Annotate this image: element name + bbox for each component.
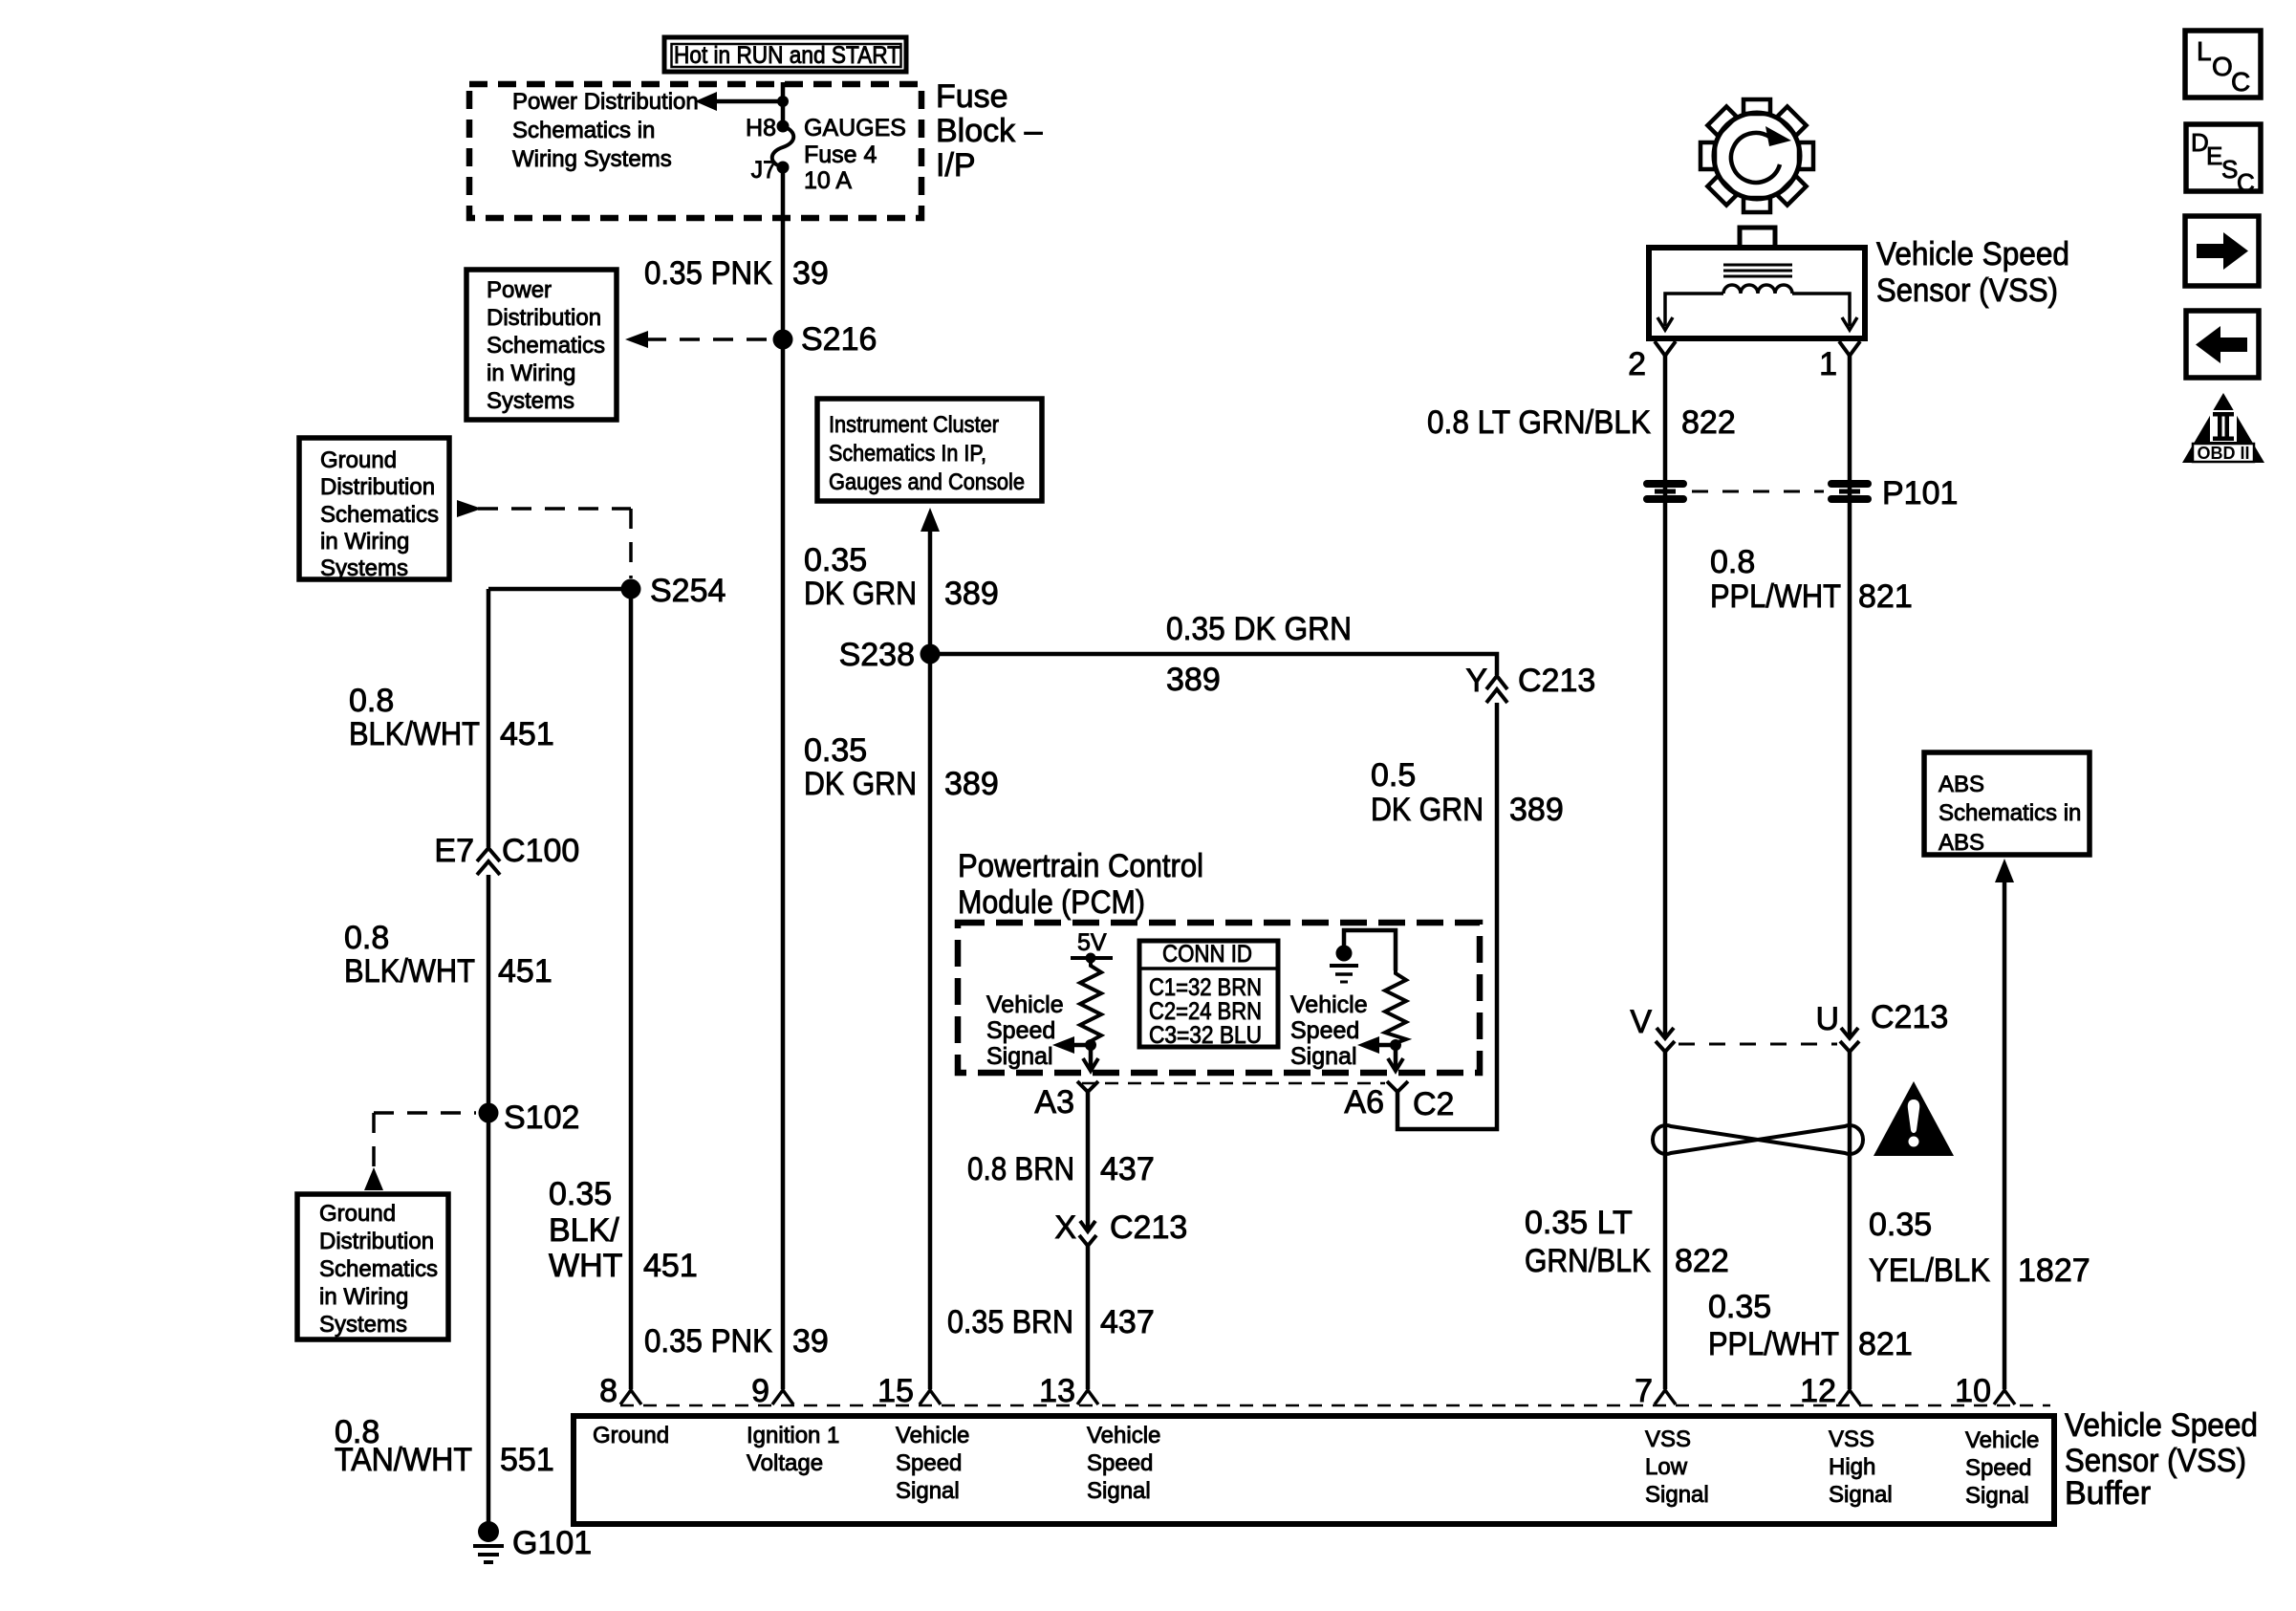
svg-text:Speed: Speed bbox=[986, 1017, 1055, 1044]
arrowhead pointing up above Ground box (lower) bbox=[364, 1167, 383, 1190]
svg-text:0.8 LT GRN/BLK: 0.8 LT GRN/BLK bbox=[1427, 404, 1651, 441]
svg-text:YEL/BLK: YEL/BLK bbox=[1869, 1252, 1990, 1289]
sidebar icon: left arrow button bbox=[2186, 311, 2259, 378]
svg-text:Hot in RUN and START: Hot in RUN and START bbox=[674, 42, 900, 69]
svg-text:Systems: Systems bbox=[320, 555, 408, 581]
svg-text:0.35: 0.35 bbox=[804, 542, 867, 578]
svg-text:Schematics: Schematics bbox=[487, 333, 605, 359]
svg-text:Signal: Signal bbox=[896, 1478, 960, 1504]
wire: right signal arrow line bbox=[1377, 1043, 1396, 1048]
wire: 0.35 BLK/WHT 451 from S254 down to buffer pin 8 bbox=[629, 589, 634, 1389]
warning symbol: filled triangle with exclamation bbox=[1874, 1081, 1954, 1156]
twisted pair symbol between wires 822 and 821 bbox=[1653, 1125, 1863, 1154]
VSS internal: core lines bbox=[1723, 264, 1792, 267]
buffer pin 12 chevron bbox=[1839, 1390, 1860, 1404]
wire: 0.35 DK GRN 389 horizontal from S238 to C213 Y bbox=[930, 654, 1497, 675]
svg-text:9: 9 bbox=[751, 1373, 769, 1409]
svg-text:V: V bbox=[1630, 1004, 1652, 1040]
svg-text:A3: A3 bbox=[1034, 1084, 1074, 1121]
svg-text:VSS: VSS bbox=[1829, 1426, 1874, 1452]
wire: 0.35 BRN 437 from C213 X down to buffer pin 13 bbox=[1086, 1246, 1091, 1389]
label box: Hot in RUN and START (outer) bbox=[664, 37, 906, 72]
svg-text:I/P: I/P bbox=[936, 147, 976, 184]
svg-text:821: 821 bbox=[1858, 578, 1913, 615]
svg-text:Signal: Signal bbox=[986, 1043, 1053, 1070]
svg-text:Distribution: Distribution bbox=[319, 1229, 434, 1254]
svg-text:39: 39 bbox=[792, 1323, 829, 1360]
svg-text:Y: Y bbox=[1465, 663, 1487, 699]
svg-text:Signal: Signal bbox=[1290, 1043, 1357, 1070]
CONN ID header separator bbox=[1139, 967, 1278, 970]
svg-text:Signal: Signal bbox=[1087, 1478, 1151, 1504]
svg-text:C: C bbox=[2237, 168, 2255, 197]
svg-text:S216: S216 bbox=[801, 321, 877, 358]
dashed line between P101 grommets bbox=[1692, 490, 1824, 493]
connector C213 terminal V (arrow + chevron) bbox=[1657, 1028, 1674, 1038]
svg-text:WHT: WHT bbox=[549, 1248, 622, 1284]
svg-text:Schematics in: Schematics in bbox=[512, 118, 655, 143]
ground G101 symbol bbox=[478, 1521, 499, 1542]
svg-text:BLK/WHT: BLK/WHT bbox=[349, 716, 480, 752]
svg-text:822: 822 bbox=[1681, 404, 1736, 441]
svg-text:DK GRN: DK GRN bbox=[804, 766, 917, 802]
svg-text:Speed: Speed bbox=[1290, 1017, 1359, 1044]
svg-text:in Wiring: in Wiring bbox=[487, 360, 575, 386]
resistor R pulldown (right) bbox=[1385, 970, 1406, 1043]
dashed reference line from S216 to Power Distribution box bbox=[646, 337, 768, 341]
splice S238 bbox=[921, 644, 941, 664]
arrowhead pointing left (vehicle speed signal left) bbox=[1052, 1036, 1074, 1054]
svg-text:A6: A6 bbox=[1344, 1084, 1384, 1121]
svg-text:Instrument Cluster: Instrument Cluster bbox=[829, 412, 999, 438]
dashed reference line from S102 to Ground box (lower) bbox=[374, 1111, 476, 1115]
node: junction at right vehicle speed signal bbox=[1390, 1039, 1401, 1051]
splice S216 bbox=[773, 330, 793, 350]
VSS internal: right lead with down arrow bbox=[1792, 294, 1850, 326]
splice S102 bbox=[479, 1103, 499, 1123]
svg-text:Low: Low bbox=[1645, 1454, 1688, 1480]
svg-text:0.5: 0.5 bbox=[1371, 757, 1416, 794]
connector C100 terminal E7 (double chevron) bbox=[477, 848, 500, 875]
svg-text:Fuse 4: Fuse 4 bbox=[804, 142, 877, 168]
PCM pin A6 chevron bbox=[1387, 1081, 1408, 1092]
svg-text:551: 551 bbox=[500, 1442, 554, 1478]
terminal J7 dot bbox=[777, 162, 790, 174]
reference box: Instrument Cluster Schematics in IP Gauges and Console bbox=[817, 399, 1042, 501]
svg-text:Systems: Systems bbox=[319, 1312, 407, 1338]
svg-text:C213: C213 bbox=[1110, 1209, 1187, 1246]
svg-text:0.8: 0.8 bbox=[344, 920, 389, 956]
svg-text:2: 2 bbox=[1628, 346, 1646, 382]
wire: 0.35 DK GRN 389 vertical to instrument cluster, with up arrow bbox=[928, 528, 933, 1389]
svg-text:389: 389 bbox=[944, 766, 999, 802]
svg-text:0.8: 0.8 bbox=[349, 683, 394, 719]
wire: ignition feed into fuse block, PNK circuit, x=819 top segment bbox=[781, 82, 786, 126]
dashed reference line down toward Ground box (lower) bbox=[372, 1113, 376, 1168]
svg-text:0.35: 0.35 bbox=[1708, 1289, 1771, 1325]
svg-text:BLK/WHT: BLK/WHT bbox=[344, 953, 475, 990]
wire: 0.35 PPL/WHT 821 from C213 U down to buffer pin 12 bbox=[1848, 1051, 1852, 1389]
svg-text:E: E bbox=[2206, 142, 2222, 170]
svg-text:13: 13 bbox=[1039, 1373, 1075, 1409]
connector C213 terminal Y (double chevron up) bbox=[1486, 676, 1507, 703]
svg-text:Block –: Block – bbox=[936, 113, 1043, 149]
svg-text:Schematics: Schematics bbox=[319, 1256, 438, 1282]
dashed connector line across buffer pins bbox=[620, 1404, 2050, 1407]
connector C213 terminal X (arrow + chevron) bbox=[1080, 1221, 1095, 1231]
connector P101 grommet (right) bbox=[1828, 480, 1872, 503]
svg-text:C100: C100 bbox=[502, 833, 579, 869]
svg-text:Vehicle: Vehicle bbox=[1965, 1427, 2039, 1453]
dashed reference line from Ground box (upper) to S254 horizontal bbox=[478, 507, 631, 511]
svg-text:Vehicle: Vehicle bbox=[1290, 991, 1368, 1018]
svg-text:451: 451 bbox=[643, 1248, 698, 1284]
svg-text:VSS: VSS bbox=[1645, 1426, 1691, 1452]
svg-text:0.35 BRN: 0.35 BRN bbox=[947, 1304, 1073, 1340]
wire: 0.35 PNK 39 from fuse J7 down to buffer pin 9 bbox=[781, 167, 786, 1389]
svg-text:0.35 PNK: 0.35 PNK bbox=[644, 1323, 772, 1360]
reference box: Ground Distribution Schematics in Wiring Systems (upper) bbox=[299, 438, 449, 579]
VSS mounting tab bbox=[1740, 228, 1775, 248]
svg-text:Speed: Speed bbox=[896, 1450, 962, 1476]
dashed reference line down to S254 bbox=[629, 509, 633, 578]
connector chevron under VSS pin 2 bbox=[1655, 341, 1676, 356]
svg-text:DK GRN: DK GRN bbox=[804, 576, 917, 612]
svg-text:E7: E7 bbox=[434, 833, 474, 869]
terminal H8 dot bbox=[777, 120, 790, 133]
svg-text:Schematics in: Schematics in bbox=[1939, 800, 2081, 826]
svg-text:8: 8 bbox=[599, 1373, 617, 1409]
svg-text:821: 821 bbox=[1858, 1326, 1913, 1362]
wire: 0.8 BLK/WHT 451 from C100 down to S102 bbox=[487, 875, 491, 1113]
svg-text:389: 389 bbox=[1509, 792, 1564, 828]
svg-text:Schematics: Schematics bbox=[320, 502, 439, 528]
svg-text:TAN/WHT: TAN/WHT bbox=[335, 1442, 472, 1478]
arrowhead pointing left at S216 reference bbox=[625, 331, 648, 348]
svg-text:Wiring Systems: Wiring Systems bbox=[512, 146, 672, 172]
svg-text:C213: C213 bbox=[1518, 663, 1595, 699]
buffer pin 9 chevron bbox=[772, 1390, 793, 1404]
svg-text:OBD II: OBD II bbox=[2197, 444, 2249, 463]
connector P101 grommet (left) bbox=[1643, 480, 1687, 503]
svg-text:0.35 PNK: 0.35 PNK bbox=[644, 255, 772, 292]
wire: 0.8 BRN 437 from PCM A3 down to C213 X bbox=[1086, 1092, 1091, 1231]
arrowhead pointing up to Instrument Cluster box bbox=[921, 508, 940, 532]
buffer pin 13 chevron bbox=[1077, 1390, 1098, 1404]
svg-text:ABS: ABS bbox=[1939, 772, 1984, 797]
wire: 0.8 TAN/WHT 551 from S102 down to G101 bbox=[487, 1113, 491, 1526]
PCM internal ground symbol bbox=[1336, 946, 1353, 962]
buffer pin 10 chevron bbox=[1994, 1390, 2015, 1404]
dashed connector line across PCM pins bbox=[1082, 1082, 1385, 1085]
svg-text:BLK/: BLK/ bbox=[549, 1212, 619, 1249]
buffer pin 7 chevron bbox=[1655, 1390, 1676, 1404]
svg-text:C213: C213 bbox=[1871, 999, 1948, 1035]
svg-text:C: C bbox=[2231, 67, 2250, 97]
wire: 0.8 LT GRN/BLK 822 from VSS pin 2 down to C213 V bbox=[1663, 356, 1668, 1038]
wire: 0.8 BLK/WHT 451 from S254 down to C100 bbox=[487, 589, 491, 847]
svg-text:0.35: 0.35 bbox=[549, 1176, 612, 1212]
component box: Vehicle Speed Sensor VSS bbox=[1649, 248, 1865, 338]
svg-text:Ground: Ground bbox=[319, 1201, 396, 1227]
fuse block dashed box: Fuse Block - I/P bbox=[469, 84, 921, 218]
svg-text:S: S bbox=[2221, 155, 2238, 184]
svg-text:Distribution: Distribution bbox=[320, 474, 435, 500]
svg-text:12: 12 bbox=[1800, 1373, 1836, 1409]
wire: 0.5 DK GRN 389 from C213 Y down and left to PCM C2 bbox=[1397, 703, 1497, 1129]
splice S254 bbox=[621, 579, 641, 599]
svg-text:Fuse: Fuse bbox=[936, 78, 1008, 115]
svg-text:389: 389 bbox=[944, 576, 999, 612]
svg-text:15: 15 bbox=[877, 1373, 914, 1409]
svg-text:5V: 5V bbox=[1077, 929, 1107, 956]
svg-text:Power: Power bbox=[487, 277, 552, 303]
connector chevron under VSS pin 1 bbox=[1839, 341, 1860, 356]
arrowhead pointing left (power distribution) bbox=[695, 92, 717, 111]
svg-text:Power Distribution: Power Distribution bbox=[512, 89, 699, 115]
svg-text:Vehicle: Vehicle bbox=[896, 1423, 969, 1448]
svg-text:0.35 DK GRN: 0.35 DK GRN bbox=[1166, 611, 1352, 647]
svg-text:C2: C2 bbox=[1413, 1086, 1454, 1122]
buffer pin 8 chevron bbox=[620, 1390, 641, 1404]
svg-text:10 A: 10 A bbox=[804, 167, 852, 194]
node: junction at left vehicle speed signal bbox=[1085, 1039, 1096, 1051]
svg-text:in Wiring: in Wiring bbox=[319, 1284, 408, 1310]
svg-text:in Wiring: in Wiring bbox=[320, 529, 409, 555]
svg-text:L: L bbox=[2197, 36, 2212, 66]
svg-text:39: 39 bbox=[792, 255, 829, 292]
fuse F4 GAUGES 10A element (S-curve) bbox=[772, 126, 794, 167]
svg-text:U: U bbox=[1815, 1001, 1839, 1037]
svg-text:0.35: 0.35 bbox=[804, 732, 867, 769]
svg-text:1: 1 bbox=[1819, 346, 1837, 382]
svg-text:451: 451 bbox=[500, 716, 554, 752]
svg-text:Module (PCM): Module (PCM) bbox=[958, 884, 1145, 921]
wire: 0.35 YEL/BLK 1827 from buffer pin 10 up to ABS reference bbox=[2003, 880, 2007, 1389]
wire: 0.35 LT GRN/BLK 822 from C213 V down to buffer pin 7 bbox=[1663, 1051, 1668, 1389]
arrowhead pointing left (vehicle speed signal right) bbox=[1357, 1036, 1379, 1054]
svg-text:Signal: Signal bbox=[1829, 1482, 1893, 1508]
svg-text:Vehicle Speed: Vehicle Speed bbox=[2065, 1407, 2258, 1444]
svg-text:Speed: Speed bbox=[1965, 1455, 2031, 1481]
sidebar icon: LOC button bbox=[2185, 31, 2261, 98]
svg-text:PPL/WHT: PPL/WHT bbox=[1708, 1326, 1839, 1362]
wire: S254 horizontal to left branch bbox=[488, 587, 631, 592]
svg-text:10: 10 bbox=[1955, 1373, 1991, 1409]
node: junction to power distribution arrow bbox=[777, 96, 789, 107]
svg-text:437: 437 bbox=[1100, 1151, 1155, 1187]
svg-text:Gauges and Console: Gauges and Console bbox=[829, 469, 1025, 495]
svg-text:Ground: Ground bbox=[320, 447, 397, 473]
svg-text:0.8 BRN: 0.8 BRN bbox=[967, 1151, 1074, 1187]
svg-text:Distribution: Distribution bbox=[487, 305, 601, 331]
component box: Vehicle Speed Sensor VSS Buffer bbox=[574, 1416, 2054, 1524]
svg-text:451: 451 bbox=[498, 953, 552, 990]
svg-text:DK GRN: DK GRN bbox=[1371, 792, 1484, 828]
svg-text:Sensor (VSS): Sensor (VSS) bbox=[1876, 272, 2058, 309]
svg-text:Voltage: Voltage bbox=[747, 1450, 823, 1476]
dashed line between C213 V and U bbox=[1679, 1043, 1837, 1046]
PCM internal: node on 5V bar bbox=[1086, 953, 1096, 964]
svg-text:0.35 LT: 0.35 LT bbox=[1525, 1205, 1633, 1241]
svg-text:GAUGES: GAUGES bbox=[804, 115, 906, 142]
reference box: ABS Schematics in ABS bbox=[1924, 752, 2090, 855]
svg-text:Vehicle Speed: Vehicle Speed bbox=[1876, 236, 2069, 272]
svg-text:Buffer: Buffer bbox=[2065, 1475, 2151, 1512]
VSS internal: left lead with down arrow bbox=[1665, 294, 1723, 326]
wire: down to PCM pin A3 with open arrow bbox=[1089, 1045, 1094, 1069]
svg-text:7: 7 bbox=[1635, 1373, 1653, 1409]
svg-text:ABS: ABS bbox=[1939, 830, 1984, 856]
svg-text:G101: G101 bbox=[512, 1525, 592, 1561]
wire: arrow line to Power Distribution text bbox=[715, 99, 783, 104]
sidebar icon: right arrow button bbox=[2185, 216, 2259, 286]
VSS internal: pickup coil bbox=[1723, 285, 1792, 294]
svg-text:X: X bbox=[1054, 1209, 1076, 1246]
svg-text:0.35: 0.35 bbox=[1869, 1207, 1932, 1243]
svg-text:Ignition 1: Ignition 1 bbox=[747, 1423, 839, 1448]
svg-text:P101: P101 bbox=[1882, 475, 1958, 512]
resistor R pullup (left) bbox=[1080, 958, 1101, 1043]
svg-text:C1=32 BRN: C1=32 BRN bbox=[1149, 974, 1262, 1001]
svg-text:Vehicle: Vehicle bbox=[986, 991, 1064, 1018]
svg-text:S254: S254 bbox=[650, 573, 726, 609]
PCM dashed box: Powertrain Control Module bbox=[958, 923, 1480, 1073]
svg-text:Signal: Signal bbox=[1965, 1483, 2029, 1509]
CONN ID table box bbox=[1139, 941, 1278, 1047]
label box: Hot in RUN and START (inner) bbox=[672, 44, 901, 67]
svg-text:O: O bbox=[2212, 52, 2233, 81]
PCM internal: 5V supply bar bbox=[1071, 956, 1113, 960]
svg-text:GRN/BLK: GRN/BLK bbox=[1525, 1243, 1651, 1279]
connector C213 terminal U (arrow + chevron) bbox=[1841, 1028, 1858, 1038]
svg-text:Schematics In IP,: Schematics In IP, bbox=[829, 441, 986, 467]
svg-text:High: High bbox=[1829, 1454, 1875, 1480]
reference box: Power Distribution Schematics in Wiring Systems (solid) bbox=[466, 270, 617, 420]
reference box: Ground Distribution Schematics in Wiring Systems (lower) bbox=[297, 1194, 448, 1339]
svg-text:Powertrain Control: Powertrain Control bbox=[958, 848, 1203, 884]
svg-text:Vehicle: Vehicle bbox=[1087, 1423, 1160, 1448]
svg-text:Systems: Systems bbox=[487, 388, 574, 414]
svg-text:Signal: Signal bbox=[1645, 1482, 1709, 1508]
wire: from internal ground up and over to resistor bbox=[1344, 930, 1396, 970]
sidebar icon: OBD II triangle bbox=[2182, 393, 2264, 463]
svg-text:389: 389 bbox=[1166, 662, 1221, 698]
svg-text:0.8: 0.8 bbox=[1710, 544, 1755, 580]
svg-text:S238: S238 bbox=[839, 637, 915, 673]
svg-text:1827: 1827 bbox=[2018, 1252, 2090, 1289]
svg-text:822: 822 bbox=[1675, 1243, 1729, 1279]
wire: left signal arrow line bbox=[1072, 1043, 1091, 1048]
svg-text:Speed: Speed bbox=[1087, 1450, 1153, 1476]
svg-text:Sensor (VSS): Sensor (VSS) bbox=[2065, 1443, 2246, 1479]
sidebar icon: DESC button bbox=[2186, 124, 2261, 197]
PCM pin A3 chevron bbox=[1077, 1081, 1098, 1092]
svg-text:Ground: Ground bbox=[593, 1423, 669, 1448]
svg-text:J7: J7 bbox=[751, 157, 776, 184]
svg-text:C2=24 BRN: C2=24 BRN bbox=[1149, 998, 1262, 1025]
buffer pin 15 chevron bbox=[920, 1390, 941, 1404]
wire: 0.8 PPL/WHT 821 from VSS pin 1 down to C213 U bbox=[1848, 356, 1852, 1038]
svg-text:S102: S102 bbox=[504, 1099, 579, 1136]
wire: down to PCM pin A6 with open arrow bbox=[1394, 1045, 1398, 1069]
svg-text:PPL/WHT: PPL/WHT bbox=[1710, 578, 1841, 615]
svg-text:H8: H8 bbox=[746, 115, 776, 142]
svg-text:437: 437 bbox=[1100, 1304, 1155, 1340]
reluctor gear icon above VSS bbox=[1700, 99, 1813, 212]
arrowhead pointing right (ground distribution reference) bbox=[457, 500, 482, 517]
svg-text:C3=32 BLU: C3=32 BLU bbox=[1149, 1022, 1262, 1049]
svg-text:CONN ID: CONN ID bbox=[1162, 941, 1252, 968]
arrowhead pointing up to ABS box bbox=[1995, 859, 2014, 882]
